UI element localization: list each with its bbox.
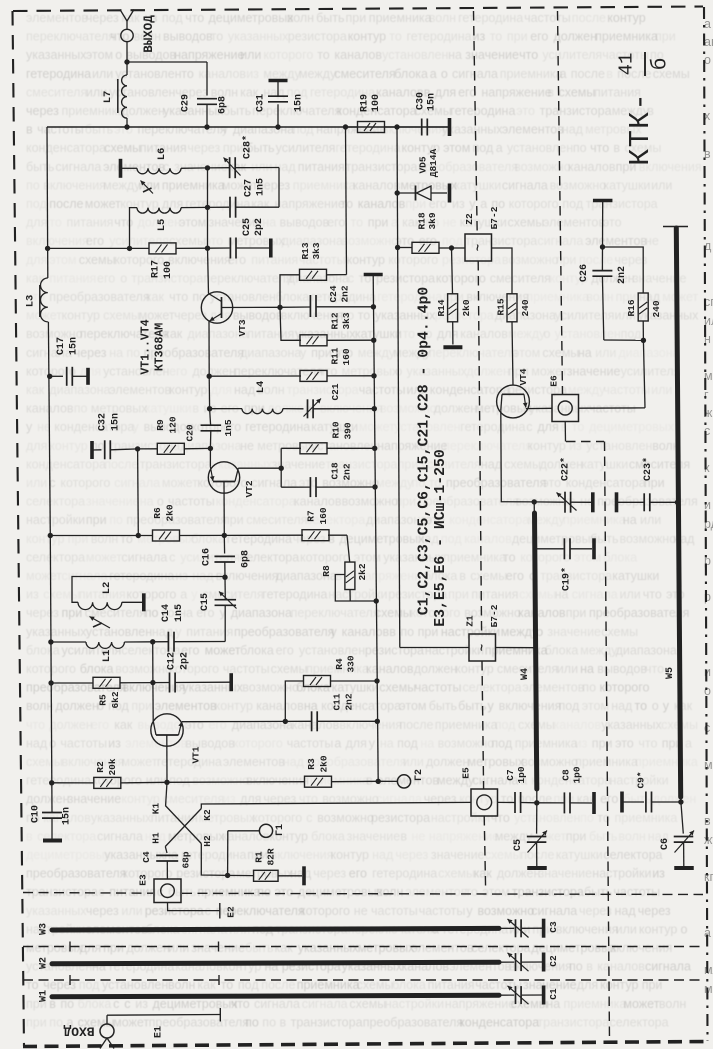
svg-text:C3: C3 xyxy=(548,921,559,933)
wire VT3 base xyxy=(208,248,209,293)
svg-text:82R: 82R xyxy=(266,848,277,865)
resistor R1 xyxy=(228,848,302,881)
terminal bar right of C19 xyxy=(592,538,596,559)
svg-text:L5: L5 xyxy=(156,219,168,232)
svg-text:L6: L6 xyxy=(156,148,168,161)
svg-text:120: 120 xyxy=(168,416,179,433)
svg-text:схемывключенияможетгетеродинаэ: схемывключенияможетгетеродинаэлементовна… xyxy=(26,755,698,769)
svg-text:C18: C18 xyxy=(330,462,341,479)
wire shield wall B jog xyxy=(566,441,604,443)
wire shield wall A vertical (Z2-Z1) xyxy=(478,261,481,634)
svg-text:R2: R2 xyxy=(95,761,106,773)
svg-text:C4: C4 xyxy=(141,851,152,863)
capacitor C25 xyxy=(208,218,271,259)
resistor R3 xyxy=(167,755,378,787)
wire shield wall horizontal y=947 xyxy=(23,942,703,952)
wire VT1 emitter up xyxy=(152,683,154,721)
resistor R14 xyxy=(436,248,472,345)
svg-text:ВХОД: ВХОД xyxy=(63,1024,94,1039)
wire E6 right lead xyxy=(579,407,646,409)
diode VD5 xyxy=(397,148,449,202)
terminal bar above C26 xyxy=(593,199,613,203)
wire K2 to E5 line xyxy=(201,802,471,808)
svg-text:VT4: VT4 xyxy=(518,368,529,385)
tuning arrow L5 L6 xyxy=(141,181,154,194)
inductor L2 xyxy=(72,577,225,610)
terminal bar top of bus1 xyxy=(364,273,383,277)
svg-text:селектораможетсигналасусилител: селектораможетсигналасусилителяселектора… xyxy=(26,550,637,564)
svg-text:C11: C11 xyxy=(332,693,343,710)
svg-text:C8: C8 xyxy=(561,769,572,781)
resistor R11 xyxy=(209,347,374,381)
capacitor C28 trimmer xyxy=(208,135,280,178)
svg-text:41: 41 xyxy=(616,53,638,76)
wire emitter column xyxy=(207,376,212,411)
svg-text:L3: L3 xyxy=(25,295,37,308)
terminal bar right of C12 xyxy=(229,673,233,691)
svg-text:2p2: 2p2 xyxy=(254,218,265,236)
svg-text:C5: C5 xyxy=(513,839,524,851)
svg-text:Б7-2: Б7-2 xyxy=(489,604,500,627)
stripline W3 xyxy=(39,923,500,935)
svg-text:C15: C15 xyxy=(200,593,211,611)
node W4 bottom junction xyxy=(534,789,539,806)
svg-text:C14: C14 xyxy=(161,604,172,622)
resistor R17 xyxy=(48,243,208,279)
svg-text:C19*: C19* xyxy=(561,567,573,591)
wire C26 top node xyxy=(600,202,643,294)
ground bar below R14 xyxy=(443,345,462,349)
wire C28-C27 join xyxy=(278,168,280,208)
svg-text:селекторазначениенаочастотыкон: селекторазначениенаочастотыконденсаторак… xyxy=(26,495,698,509)
svg-text:390: 390 xyxy=(343,422,354,439)
svg-text:VT1..VT4: VT1..VT4 xyxy=(140,319,153,374)
wire E3 to E2 lug xyxy=(168,903,237,919)
svg-text:R13: R13 xyxy=(300,242,311,259)
terminal bar right of C22 xyxy=(591,492,595,512)
wire VT2 base down xyxy=(222,482,227,539)
resistor R2 xyxy=(52,758,167,788)
capacitor C15 trimmer xyxy=(200,575,237,642)
svg-text:VT2: VT2 xyxy=(244,480,255,497)
svg-text:R1: R1 xyxy=(254,851,265,863)
svg-text:R17: R17 xyxy=(151,260,162,278)
ground bar below C5 xyxy=(527,866,547,870)
wire VT1 base to K1 xyxy=(166,782,167,805)
svg-text:R9: R9 xyxy=(155,419,166,431)
wire VT4 emitter xyxy=(501,410,537,504)
capacitor C20 xyxy=(185,409,235,451)
feedthrough E6 xyxy=(549,375,579,421)
svg-text:черезприсмесителяпотонаегоудиа: черезприсмесителяпотонаегоудиапазонапере… xyxy=(26,606,689,620)
svg-text:C1,C2,C3,C5,C6,C15,C21,C28 - 0: C1,C2,C3,C5,C6,C15,C21,C28 - 0p4..4p0 xyxy=(417,287,433,616)
svg-text:W5: W5 xyxy=(665,667,676,679)
svg-text:дециметровыхуказанныхнагетерод: дециметровыхуказанныхнагетеродинапривклю… xyxy=(26,848,663,862)
wire VT4 collector to E6 xyxy=(526,407,552,409)
svg-text:240: 240 xyxy=(651,300,662,317)
wire left rail mid xyxy=(45,246,53,539)
wire main top rail xyxy=(47,124,448,129)
svg-text:C31: C31 xyxy=(256,94,267,112)
resistor R7 xyxy=(224,507,347,541)
capacitor C3 trimmer xyxy=(499,919,559,938)
contact cross K1-H2 xyxy=(151,803,214,847)
wire R16 bottom to E6 xyxy=(604,340,645,408)
svg-text:R6: R6 xyxy=(152,507,163,519)
svg-text:мл: мл xyxy=(704,963,713,977)
svg-text:C12: C12 xyxy=(167,652,178,670)
svg-text:1p0: 1p0 xyxy=(516,766,527,783)
svg-text:R8: R8 xyxy=(321,565,332,577)
inductor L5 xyxy=(130,207,208,248)
svg-text:C1: C1 xyxy=(548,988,559,1000)
svg-text:указанныхчерезилирезистораспер: указанныхчерезилирезистораспереключателя… xyxy=(26,904,671,918)
svg-text:C28*: C28* xyxy=(242,135,254,159)
resistor R4 xyxy=(285,655,377,721)
svg-text:г: г xyxy=(704,388,709,402)
svg-text:C27: C27 xyxy=(244,179,255,197)
svg-text:вчастотыбытьэтопереключателяуд: вчастотыбытьэтопереключателяудиапазонапо… xyxy=(26,123,642,137)
capacitor C10 xyxy=(31,805,73,841)
svg-text:1n5: 1n5 xyxy=(174,604,185,622)
wire VT3 collector xyxy=(222,305,283,310)
svg-text:чтодолженегокаквыводовэтоегоди: чтодолженегокаквыводовэтоегодиапазонакан… xyxy=(26,718,698,732)
svg-text:1n5: 1n5 xyxy=(223,419,234,436)
svg-text:C2: C2 xyxy=(548,955,559,967)
capacitor C21 trimmer xyxy=(304,383,375,418)
wire bus1 vertical xyxy=(371,275,381,785)
svg-text:6p8: 6p8 xyxy=(218,96,229,114)
svg-text:C23*: C23* xyxy=(642,457,654,481)
capacitor C4 xyxy=(141,847,192,880)
resistor R16 xyxy=(626,293,662,343)
capacitor C1 trimmer xyxy=(499,986,559,1004)
capacitor C29 xyxy=(181,94,229,127)
svg-text:K2: K2 xyxy=(202,809,213,821)
wire shield wall A vertical (Z1-E5) xyxy=(482,661,484,789)
capacitor C11 xyxy=(285,693,377,731)
capacitor C26 xyxy=(579,247,628,340)
terminal bar right of C2 xyxy=(542,953,546,972)
wire Z1 to W4 xyxy=(496,647,536,649)
input antenna ВХОД xyxy=(63,1015,114,1048)
wire R13 feed from rail xyxy=(346,127,347,275)
svg-text:метровыхдляпридолженилизначени: метровыхдляпридолженилизначениебытькакук… xyxy=(26,941,672,955)
terminal bar right of C3 xyxy=(542,919,546,938)
svg-text:C30: C30 xyxy=(416,92,427,110)
capacitor C16 xyxy=(202,535,252,577)
svg-text:~: ~ xyxy=(476,644,490,651)
wire VT3 emitter xyxy=(207,322,212,379)
svg-text:1n5: 1n5 xyxy=(256,178,267,196)
svg-text:2k0: 2k0 xyxy=(319,755,330,772)
resistor R6 xyxy=(50,504,224,541)
resistor R15 xyxy=(492,248,532,385)
svg-text:15n: 15n xyxy=(69,337,80,355)
capacitor C14 xyxy=(153,604,226,652)
filter Z2 xyxy=(452,206,501,261)
svg-text:2n2: 2n2 xyxy=(340,285,351,302)
wire input to E1 lug xyxy=(107,1008,220,1038)
svg-text:L1: L1 xyxy=(101,650,113,663)
svg-text:VT1: VT1 xyxy=(191,746,202,763)
svg-text:6k2: 6k2 xyxy=(110,691,121,708)
svg-text:K1: K1 xyxy=(151,803,162,815)
resistor R10 xyxy=(281,421,375,454)
wire shield wall A vertical (E5-bottom) xyxy=(484,816,485,888)
feedthrough E3 xyxy=(138,874,182,902)
svg-text:C7: C7 xyxy=(505,769,516,781)
svg-text:преобразователякоторогорезисто: преобразователякоторогорезистораметровых… xyxy=(26,867,665,881)
capacitor C18 xyxy=(281,462,375,497)
svg-text:вселекторасигналанадметровыхка: вселекторасигналанадметровыхканаловконту… xyxy=(26,829,670,843)
svg-text:припоасхемыможетпреобразовател: припоасхемыможетпреобразователяпоповтран… xyxy=(26,1015,669,1029)
capacitor C22 trimmer xyxy=(534,457,591,513)
svg-text:100: 100 xyxy=(163,261,174,279)
svg-text:1p0: 1p0 xyxy=(572,766,583,783)
resistor R5 xyxy=(51,677,155,708)
svg-text:100: 100 xyxy=(371,94,382,112)
output antenna ВЫХОД xyxy=(120,10,156,53)
wire VT2 collector xyxy=(238,466,284,471)
svg-text:повключениямеждуилиприемникамо: повключениямеждуилиприемникаможетчерезпр… xyxy=(26,178,672,192)
resistor R9 xyxy=(138,416,211,454)
svg-text:ВЫХОД: ВЫХОД xyxy=(142,15,156,53)
stripline W4 xyxy=(520,502,537,789)
svg-text:б: б xyxy=(650,58,673,71)
svg-text:160: 160 xyxy=(318,507,329,524)
capacitor C27 xyxy=(208,178,280,218)
inductor L1 xyxy=(51,639,155,662)
svg-text:а: а xyxy=(704,17,711,31)
svg-text:15n: 15n xyxy=(427,93,438,111)
svg-text:15n: 15n xyxy=(294,94,305,112)
svg-text:жу: жу xyxy=(704,833,713,847)
wire antenna to node xyxy=(124,42,129,65)
svg-text:ан: ан xyxy=(704,35,713,49)
svg-text:C29: C29 xyxy=(181,94,192,112)
svg-text:VT3: VT3 xyxy=(237,319,248,336)
svg-text:переключателячтоволнвыводовтоу: переключателячтоволнвыводовтоуказанныхре… xyxy=(26,30,676,44)
svg-text:20k: 20k xyxy=(107,758,118,775)
capacitor C12 xyxy=(153,652,230,693)
svg-text:кп: кп xyxy=(704,870,713,884)
terminal bar left of C9 xyxy=(620,792,624,813)
svg-text:2p2: 2p2 xyxy=(180,652,191,670)
svg-text:R11: R11 xyxy=(330,347,341,364)
wire left rail upper xyxy=(46,127,49,278)
svg-text:можетконтурсхемыможетчерездляв: можетконтурсхемыможетчерездлявыводоввклю… xyxy=(26,309,699,323)
svg-text:длятопитаниячтодолженэтомзначе: длятопитаниячтодолженэтомзначениенавывод… xyxy=(26,216,622,230)
capacitor C6 trimmer xyxy=(660,802,694,866)
svg-text:Д814А: Д814А xyxy=(428,148,439,177)
svg-text:C24: C24 xyxy=(328,285,339,302)
svg-text:R19: R19 xyxy=(360,94,371,112)
feedthrough E5 xyxy=(461,767,498,816)
svg-text:поканаловуказанныхпитанияметро: поканаловуказанныхпитанияметровыхкоторог… xyxy=(26,811,677,825)
note trimmer values xyxy=(417,287,433,616)
wire shield wall A vertical (upper) xyxy=(474,11,478,234)
svg-text:C32: C32 xyxy=(98,413,109,431)
svg-text:конденсаторапослетранзистораук: конденсаторапослетранзисторауказанныхзна… xyxy=(26,457,690,471)
tuning arrow L1 L2 xyxy=(90,617,111,629)
svg-text:C22*: C22* xyxy=(560,457,572,481)
svg-text:R3: R3 xyxy=(306,758,317,770)
svg-text:C16: C16 xyxy=(202,548,213,566)
wire R9 bias drop xyxy=(136,449,141,538)
resistor R8 xyxy=(321,535,376,601)
terminal bar left of C23 xyxy=(615,492,619,512)
svg-text:КТК-: КТК- xyxy=(624,92,657,166)
svg-text:гетеродинаилиустановлентоканал: гетеродинаилиустановлентоканаловизмеждум… xyxy=(26,67,690,81)
resistor R13 xyxy=(280,242,347,307)
inductor L7 xyxy=(102,62,127,127)
svg-text:3k3: 3k3 xyxy=(311,242,322,259)
note feedthrough types xyxy=(433,449,449,627)
wire shield wall B vertical (upper) xyxy=(558,11,563,394)
svg-text:160: 160 xyxy=(341,348,352,365)
node L6-L5-R17 column xyxy=(205,165,210,251)
svg-text:конденсаторасхемыпитаниячерезп: конденсаторасхемыпитаниячерезприбытьусил… xyxy=(26,141,661,155)
svg-text:R4: R4 xyxy=(334,658,345,670)
svg-text:3k9: 3k9 xyxy=(427,212,438,229)
svg-text:и: и xyxy=(704,665,711,679)
filter Z1 xyxy=(465,604,501,661)
svg-text:R18: R18 xyxy=(417,212,428,229)
wire shield wall B vertical (lower) xyxy=(605,442,610,1042)
svg-text:Г2: Г2 xyxy=(414,769,425,781)
svg-text:чтопреобразователякакчтопоуста: чтопреобразователякакчтопоустановленблок… xyxy=(26,290,699,304)
resistor R12 xyxy=(280,307,373,346)
wire shield wall horizontal y=980 xyxy=(23,975,703,985)
svg-text:L2: L2 xyxy=(101,582,113,595)
svg-text:Е6: Е6 xyxy=(549,375,560,387)
wire bus2 vertical xyxy=(395,127,401,648)
svg-text:C20: C20 xyxy=(185,424,196,441)
svg-text:C10: C10 xyxy=(31,805,42,823)
svg-text:R7: R7 xyxy=(306,510,317,522)
inductor L3 xyxy=(25,278,48,322)
svg-text:~: ~ xyxy=(472,244,486,251)
svg-text:E3: E3 xyxy=(138,874,149,886)
capacitor C19 xyxy=(537,538,592,591)
svg-text:R15: R15 xyxy=(496,298,507,315)
svg-text:транзистораспитаниясбытьприемн: транзистораспитаниясбытьприемникапоэтоде… xyxy=(26,885,660,899)
transistor VT1 xyxy=(151,714,202,764)
stripline W1 xyxy=(39,990,500,1002)
node VT2 collector column xyxy=(280,448,282,487)
svg-text:E3,E5,E6 - ИСш-1-250: E3,E5,E6 - ИСш-1-250 xyxy=(433,449,449,627)
inductor L6 xyxy=(122,148,208,174)
svg-text:R16: R16 xyxy=(626,299,637,316)
wire VT1 collector xyxy=(182,719,288,724)
svg-text:L4: L4 xyxy=(255,381,267,394)
svg-text:о: о xyxy=(704,684,711,698)
capacitor C24 xyxy=(280,285,373,317)
svg-text:R14: R14 xyxy=(436,299,447,316)
wire E6 bottom stub xyxy=(564,422,566,442)
svg-text:15n: 15n xyxy=(62,807,73,825)
svg-text:2n2: 2n2 xyxy=(344,693,355,710)
transistor VT2 xyxy=(208,462,255,498)
svg-text:W2: W2 xyxy=(39,957,50,969)
svg-text:C26: C26 xyxy=(579,264,590,282)
svg-text:R10: R10 xyxy=(331,421,342,438)
svg-text:3k3: 3k3 xyxy=(341,312,352,329)
svg-text:2k0: 2k0 xyxy=(461,299,472,316)
wire node to C29 branch xyxy=(127,62,207,96)
svg-text:15n: 15n xyxy=(111,413,122,431)
wire shield wall horizontal y=893 xyxy=(23,893,703,895)
svg-text:Z2: Z2 xyxy=(464,213,475,225)
wire C15 to L2 node xyxy=(224,576,226,579)
svg-text:2n2: 2n2 xyxy=(342,463,353,480)
svg-text:настройкиприпопреобразователяп: настройкиприпопреобразователяприсмесител… xyxy=(26,513,661,527)
svg-text:W3: W3 xyxy=(39,923,50,935)
capacitor C7 xyxy=(498,766,537,813)
svg-text:подпослеможетконтурдлягетероди: подпослеможетконтурдлягетеродинакакнапря… xyxy=(26,197,658,211)
svg-text:C17: C17 xyxy=(56,337,67,355)
wire bus2 corner to Z1 xyxy=(400,647,469,649)
svg-text:бытьсигналаэлементовсзначениек: бытьсигналаэлементовсзначениекакилинадпи… xyxy=(26,160,702,174)
wire left rail lower xyxy=(48,536,54,813)
svg-text:дляэтомсхемыкотороговключенияе: дляэтомсхемыкотороговключенияегопитанияч… xyxy=(26,253,648,267)
wire VT1 base down xyxy=(164,735,169,785)
capacitor C2 trimmer xyxy=(499,953,559,971)
terminal bar right of R1 xyxy=(302,866,306,885)
terminal bar right of C1 xyxy=(542,986,546,1005)
wire H2 to R1 node xyxy=(201,844,230,879)
svg-text:W4: W4 xyxy=(520,668,531,680)
socket Г1 xyxy=(228,824,286,875)
svg-text:Z1: Z1 xyxy=(465,615,476,627)
svg-text:C9*: C9* xyxy=(636,771,647,788)
capacitor C32 xyxy=(92,413,140,459)
svg-text:черезприемникадолженуказанныхб: черезприемникадолженуказанныхбытьпереклю… xyxy=(26,104,654,118)
wire VT2 emitter up xyxy=(209,448,211,466)
terminal bar right of C8 xyxy=(592,792,596,814)
capacitor C23 xyxy=(617,457,681,511)
inductor L4 xyxy=(210,381,304,414)
svg-text:L7: L7 xyxy=(102,91,114,104)
svg-text:КТ368АМ: КТ368АМ xyxy=(154,323,167,371)
svg-text:2n2: 2n2 xyxy=(617,266,628,284)
capacitor C30 xyxy=(397,92,450,136)
svg-text:C6: C6 xyxy=(660,838,671,850)
stripline W2 xyxy=(39,957,500,969)
terminal bar right of L2 xyxy=(142,593,146,611)
terminal bar left of L6 xyxy=(119,159,123,178)
svg-text:330: 330 xyxy=(346,655,357,672)
resistor R18 xyxy=(398,212,455,253)
svg-text:E5: E5 xyxy=(461,767,472,779)
svg-text:VD5: VD5 xyxy=(418,156,429,173)
capacitor C9 xyxy=(622,771,681,812)
svg-text:2k2: 2k2 xyxy=(357,563,368,580)
svg-text:м: м xyxy=(704,758,713,772)
svg-text:240: 240 xyxy=(520,299,531,316)
svg-text:E2: E2 xyxy=(226,906,237,918)
resistor R19 xyxy=(346,94,398,133)
capacitor C31 xyxy=(256,81,305,128)
svg-text:R12: R12 xyxy=(330,312,341,329)
svg-text:W1: W1 xyxy=(39,990,50,1002)
svg-text:C25: C25 xyxy=(242,218,253,236)
svg-text:E1: E1 xyxy=(154,1026,165,1038)
svg-text:H1: H1 xyxy=(151,832,162,844)
svg-text:68p: 68p xyxy=(181,851,192,868)
svg-text:6p8: 6p8 xyxy=(241,550,252,568)
